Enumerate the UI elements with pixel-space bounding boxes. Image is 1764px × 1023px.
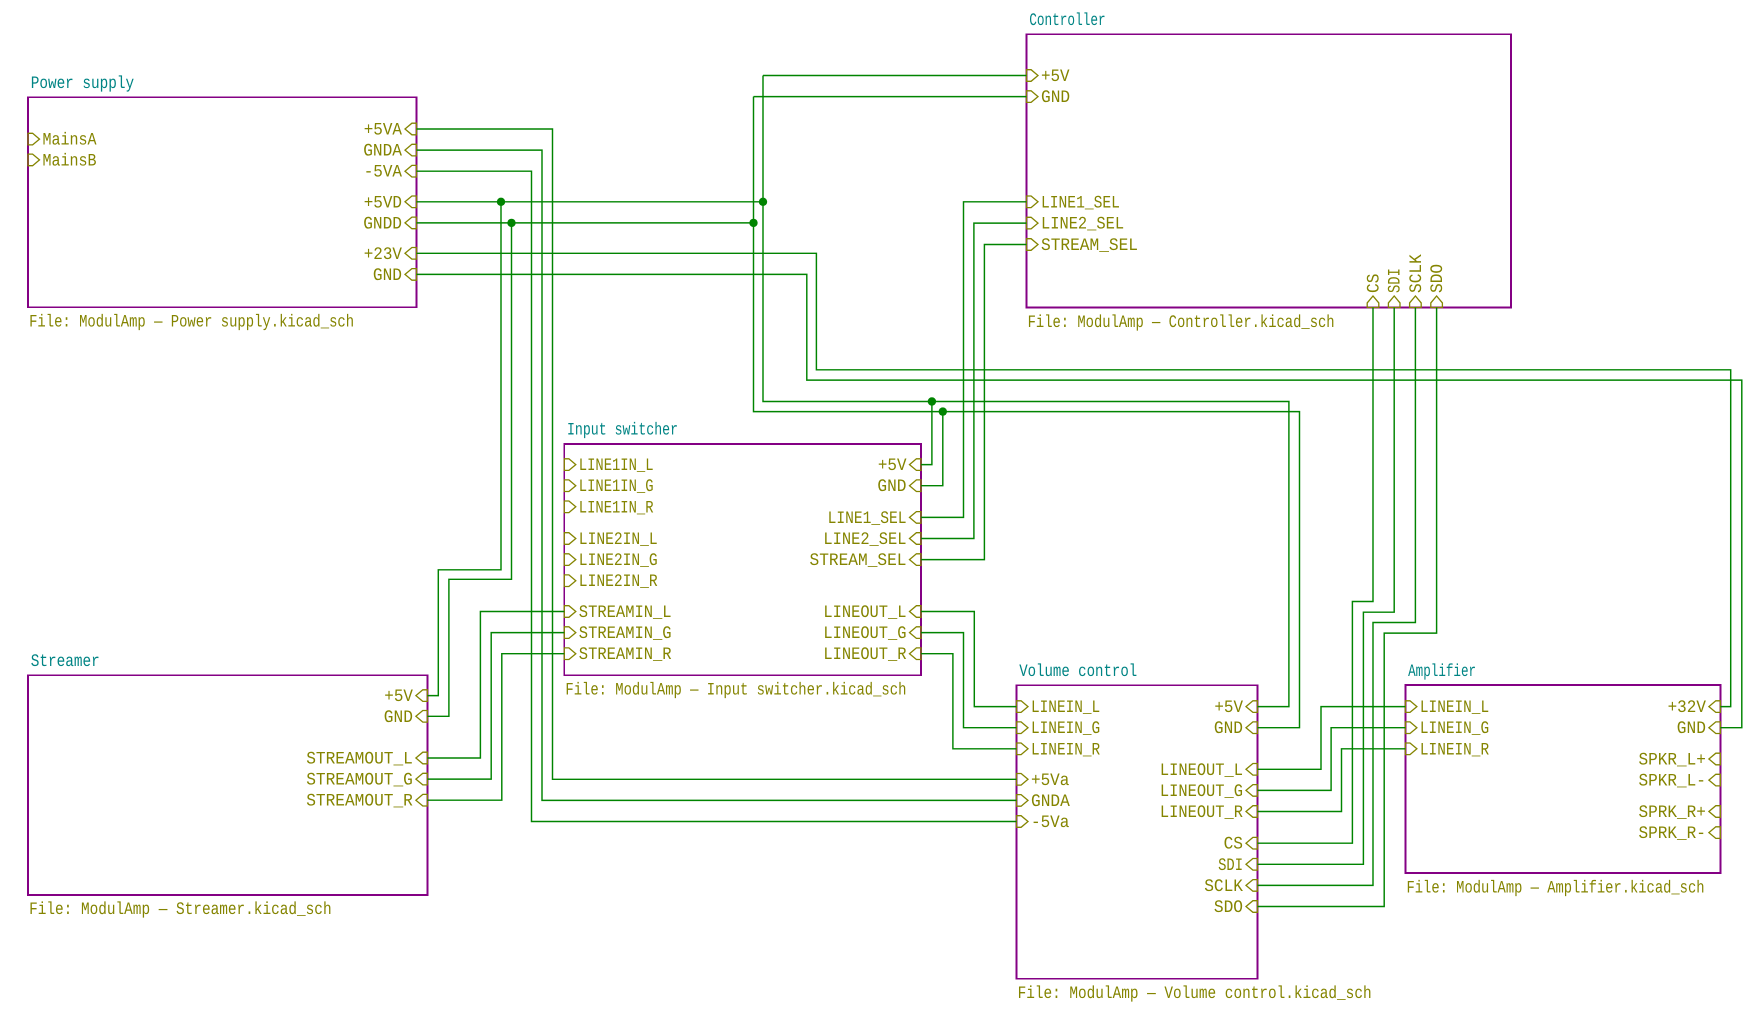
svg-text:-5Va: -5Va — [1031, 813, 1069, 833]
svg-text:GND: GND — [384, 708, 413, 728]
pin Controller GND — [1027, 91, 1039, 103]
pin Power supply +5VD — [405, 196, 417, 208]
pin Amplifier SPKR_L- — [1709, 774, 1721, 786]
pin Input switcher LINEOUT_G — [910, 627, 922, 639]
pin Input switcher LINE1IN_L — [564, 459, 576, 471]
svg-text:Streamer: Streamer — [31, 652, 100, 672]
pin Volume control GND — [1246, 722, 1258, 734]
svg-text:Power supply: Power supply — [31, 74, 135, 94]
wire net SDO — [1258, 308, 1437, 907]
pin Volume control +5Va — [1017, 774, 1029, 786]
svg-text:File: ModulAmp — Power supply.: File: ModulAmp — Power supply.kicad_sch — [29, 313, 354, 333]
svg-text:LINEOUT_G: LINEOUT_G — [1160, 782, 1243, 802]
wire net LINEOUT_R (switcher to volume) — [921, 654, 1017, 749]
pin Controller LINE2_SEL — [1027, 217, 1039, 229]
wire net +5VD — [417, 76, 1289, 707]
sheet Controller: outline — [1027, 34, 1512, 307]
svg-text:SPKR_L-: SPKR_L- — [1639, 772, 1706, 792]
pin Controller CS (bottom) — [1367, 296, 1379, 308]
wire net LINE2_SEL — [921, 223, 1027, 538]
svg-text:SCLK: SCLK — [1204, 877, 1243, 897]
svg-text:STREAMOUT_R: STREAMOUT_R — [306, 792, 413, 812]
pin Input switcher LINE1_SEL — [910, 512, 922, 524]
pin Amplifier LINEIN_G — [1405, 722, 1417, 734]
svg-text:+5VD: +5VD — [364, 193, 402, 213]
svg-text:File: ModulAmp — Input switche: File: ModulAmp — Input switcher.kicad_sc… — [565, 681, 906, 701]
wire net STREAMOUT_L — [427, 612, 564, 759]
pin Volume control LINEIN_G — [1017, 722, 1029, 734]
svg-text:LINEIN_L: LINEIN_L — [1031, 698, 1100, 718]
wire net GNDA — [417, 150, 1017, 800]
svg-text:STREAM_SEL: STREAM_SEL — [1041, 236, 1138, 256]
sheet Power supply: outline — [28, 97, 417, 307]
svg-text:LINE1IN_G: LINE1IN_G — [579, 477, 654, 497]
svg-text:LINE2_SEL: LINE2_SEL — [823, 530, 906, 550]
wire net LINEOUT_G (switcher to volume) — [921, 633, 1017, 728]
sheet Volume control: outline — [1017, 685, 1258, 979]
svg-text:MainsA: MainsA — [43, 131, 97, 151]
pin Amplifier GND — [1709, 722, 1721, 734]
svg-text:GNDA: GNDA — [363, 142, 402, 162]
pin Volume control LINEIN_R — [1017, 743, 1029, 755]
svg-text:GNDA: GNDA — [1031, 792, 1070, 812]
pin Controller SCLK (bottom) — [1410, 296, 1422, 308]
pin Controller +5V — [1027, 70, 1039, 82]
pin Volume control LINEOUT_R — [1246, 806, 1258, 818]
pin Volume control LINEOUT_L — [1246, 764, 1258, 776]
pin Power supply +5VA — [405, 123, 417, 135]
svg-text:LINEOUT_G: LINEOUT_G — [823, 624, 906, 644]
pin Power supply +23V — [405, 248, 417, 260]
pin Power supply GND — [405, 269, 417, 281]
pin Power supply MainsA — [28, 133, 40, 145]
svg-text:LINE1IN_L: LINE1IN_L — [579, 456, 654, 476]
svg-text:CS: CS — [1365, 274, 1385, 293]
pin Controller SDI (bottom) — [1388, 296, 1400, 308]
svg-text:LINE1_SEL: LINE1_SEL — [828, 509, 907, 529]
junction GNDD (511.5,222.9) — [507, 219, 515, 227]
svg-text:LINE1_SEL: LINE1_SEL — [1041, 193, 1120, 213]
pin Amplifier LINEIN_L — [1405, 701, 1417, 713]
pin Input switcher LINE1IN_G — [564, 480, 576, 492]
svg-text:+32V: +32V — [1668, 698, 1707, 718]
pin Input switcher LINE2IN_R — [564, 575, 576, 587]
pin Volume control LINEOUT_G — [1246, 785, 1258, 797]
svg-text:+5V: +5V — [1214, 698, 1243, 718]
pin Power supply GNDD — [405, 217, 417, 229]
pin Streamer GND — [416, 711, 428, 723]
svg-text:LINEOUT_R: LINEOUT_R — [823, 645, 907, 665]
pin Input switcher LINEOUT_R — [910, 648, 922, 660]
svg-text:GND: GND — [877, 477, 906, 497]
svg-text:SPKR_L+: SPKR_L+ — [1639, 751, 1706, 771]
svg-text:+5VA: +5VA — [364, 121, 403, 141]
svg-text:LINE2IN_G: LINE2IN_G — [579, 551, 658, 571]
pin Controller SDO (bottom) — [1431, 296, 1443, 308]
pin Input switcher LINE2_SEL — [910, 533, 922, 545]
pin Controller STREAM_SEL — [1027, 239, 1039, 251]
wire net STREAM_SEL — [921, 245, 1027, 560]
svg-text:File: ModulAmp — Controller.ki: File: ModulAmp — Controller.kicad_sch — [1028, 313, 1335, 333]
svg-text:LINE2_SEL: LINE2_SEL — [1041, 215, 1124, 235]
pin Power supply MainsB — [28, 154, 40, 166]
svg-text:STREAM_SEL: STREAM_SEL — [810, 551, 907, 571]
wire net STREAMOUT_R — [427, 654, 564, 801]
wire net STREAMOUT_G — [427, 633, 564, 780]
svg-text:+5V: +5V — [878, 456, 907, 476]
svg-text:LINEIN_R: LINEIN_R — [1420, 740, 1490, 760]
svg-text:STREAMOUT_L: STREAMOUT_L — [306, 750, 413, 770]
svg-text:File: ModulAmp — Streamer.kica: File: ModulAmp — Streamer.kicad_sch — [29, 900, 332, 920]
pin Volume control +5V — [1246, 701, 1258, 713]
svg-text:LINEOUT_R: LINEOUT_R — [1160, 803, 1244, 823]
svg-text:File: ModulAmp — Amplifier.kic: File: ModulAmp — Amplifier.kicad_sch — [1407, 878, 1705, 898]
svg-text:SDO: SDO — [1428, 264, 1448, 293]
wire net LINE1_SEL — [921, 202, 1027, 518]
svg-text:SPRK_R-: SPRK_R- — [1639, 824, 1706, 844]
pin Input switcher GND — [910, 480, 922, 492]
pin Input switcher LINE2IN_G — [564, 554, 576, 566]
svg-text:STREAMIN_G: STREAMIN_G — [579, 624, 672, 644]
pin Input switcher LINE1IN_R — [564, 501, 576, 513]
pin Input switcher STREAMIN_L — [564, 606, 576, 618]
svg-text:LINEIN_L: LINEIN_L — [1420, 698, 1489, 718]
pin Volume control SDI — [1246, 859, 1258, 871]
pin Amplifier LINEIN_R — [1405, 743, 1417, 755]
svg-text:LINE1IN_R: LINE1IN_R — [579, 498, 654, 518]
wire net LINEOUT_R (volume to amplifier) — [1258, 749, 1406, 812]
svg-text:LINEIN_R: LINEIN_R — [1031, 740, 1101, 760]
pin Streamer STREAMOUT_L — [416, 752, 428, 764]
svg-text:SDI: SDI — [1218, 856, 1243, 876]
pin Input switcher LINEOUT_L — [910, 606, 922, 618]
pin Streamer STREAMOUT_G — [416, 773, 428, 785]
svg-text:LINEIN_G: LINEIN_G — [1031, 719, 1100, 739]
pin Input switcher STREAM_SEL — [910, 554, 922, 566]
svg-text:STREAMOUT_G: STREAMOUT_G — [306, 771, 413, 791]
pin Volume control -5Va — [1017, 816, 1029, 828]
pin Streamer +5V — [416, 690, 428, 702]
svg-text:STREAMIN_R: STREAMIN_R — [579, 645, 672, 665]
sheet Input switcher: outline — [564, 444, 921, 675]
svg-text:SDO: SDO — [1214, 898, 1243, 918]
junction GNDD (942.8,411.6) — [939, 407, 947, 415]
junction +5VD (931.9,401.5) — [928, 397, 936, 405]
svg-text:+23V: +23V — [364, 245, 403, 265]
svg-text:CS: CS — [1224, 835, 1243, 855]
sheet Streamer: outline — [28, 675, 427, 895]
pin Volume control CS — [1246, 837, 1258, 849]
sheet Amplifier: outline — [1405, 685, 1720, 873]
svg-text:SCLK: SCLK — [1407, 254, 1427, 293]
wire net +5VA — [417, 129, 1017, 779]
pin Amplifier +32V — [1709, 701, 1721, 713]
svg-text:Input switcher: Input switcher — [567, 421, 678, 441]
svg-text:LINE2IN_L: LINE2IN_L — [579, 530, 658, 550]
svg-text:GND: GND — [1214, 719, 1243, 739]
wire net GNDD — [417, 97, 1300, 728]
svg-text:STREAMIN_L: STREAMIN_L — [579, 603, 672, 623]
pin Streamer STREAMOUT_R — [416, 794, 428, 806]
pin Volume control GNDA — [1017, 795, 1029, 807]
svg-text:Amplifier: Amplifier — [1408, 662, 1476, 682]
wire net GND — [417, 274, 1742, 727]
pin Amplifier SPRK_R- — [1709, 827, 1721, 839]
svg-text:LINEIN_G: LINEIN_G — [1420, 719, 1489, 739]
svg-text:MainsB: MainsB — [43, 151, 97, 171]
wire net -5VA — [417, 171, 1017, 821]
svg-text:-5VA: -5VA — [364, 163, 403, 183]
wire net +23V — [417, 253, 1731, 706]
wire net LINEOUT_L (volume to amplifier) — [1258, 707, 1406, 770]
pin Power supply -5VA — [405, 165, 417, 177]
junction GNDD (753.5,222.9) — [749, 219, 757, 227]
svg-text:SPRK_R+: SPRK_R+ — [1639, 803, 1706, 823]
pin Input switcher STREAMIN_R — [564, 648, 576, 660]
pin Controller LINE1_SEL — [1027, 196, 1039, 208]
svg-text:GND: GND — [1677, 719, 1706, 739]
wire net SCLK — [1258, 308, 1416, 886]
junction +5VD (501.0,201.8) — [497, 198, 505, 206]
svg-text:+5V: +5V — [384, 687, 413, 707]
svg-text:LINEOUT_L: LINEOUT_L — [1160, 761, 1243, 781]
svg-text:GND: GND — [373, 266, 402, 286]
junction +5VD (763.0,201.8) — [759, 198, 767, 206]
svg-text:File: ModulAmp — Volume contro: File: ModulAmp — Volume control.kicad_sc… — [1018, 984, 1372, 1004]
pin Input switcher +5V — [910, 459, 922, 471]
svg-text:GNDD: GNDD — [363, 214, 402, 234]
svg-text:LINEOUT_L: LINEOUT_L — [823, 603, 906, 623]
pin Input switcher LINE2IN_L — [564, 533, 576, 545]
svg-text:LINE2IN_R: LINE2IN_R — [579, 572, 658, 592]
wire net SDI — [1258, 308, 1395, 865]
wire net CS — [1258, 308, 1374, 844]
wire net LINEOUT_L (switcher to volume) — [921, 612, 1017, 707]
svg-text:Volume control: Volume control — [1019, 662, 1137, 682]
svg-text:+5Va: +5Va — [1031, 771, 1069, 791]
wire net LINEOUT_G (volume to amplifier) — [1258, 728, 1406, 791]
svg-text:+5V: +5V — [1041, 67, 1070, 87]
pin Amplifier SPRK_R+ — [1709, 806, 1721, 818]
pin Power supply GNDA — [405, 144, 417, 156]
pin Amplifier SPKR_L+ — [1709, 753, 1721, 765]
svg-text:SDI: SDI — [1386, 268, 1406, 293]
pin Volume control LINEIN_L — [1017, 701, 1029, 713]
pin Volume control SDO — [1246, 901, 1258, 913]
pin Input switcher STREAMIN_G — [564, 627, 576, 639]
svg-text:Controller: Controller — [1029, 11, 1106, 31]
svg-text:GND: GND — [1041, 88, 1070, 108]
pin Volume control SCLK — [1246, 880, 1258, 892]
